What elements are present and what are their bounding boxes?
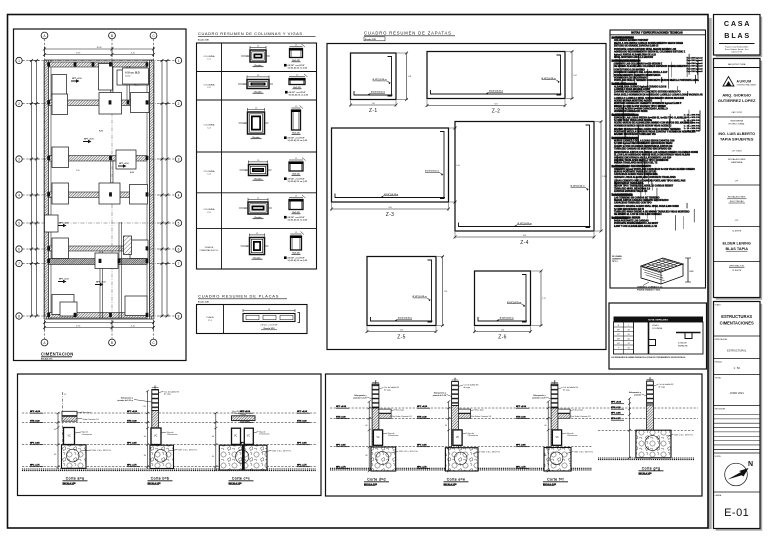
svg-text:.15: .15	[154, 385, 156, 387]
grid centerlines	[42, 58, 156, 321]
svg-text:EL CON LAS AGREGADO MUROS SUEL: EL CON LAS AGREGADO MUROS SUELO ENCOFRAD…	[614, 154, 690, 157]
svg-text:2.55: 2.55	[76, 170, 80, 172]
svg-text:CAPACIDAD ACERO PARA SOBRECIMI: CAPACIDAD ACERO PARA SOBRECIMIE	[614, 173, 658, 176]
svg-text:1 : 10 + 30% P.G.: 1 : 10 + 30% P.G.	[684, 128, 701, 130]
svg-text:PIEDRA GRANDE 6" MAX.: PIEDRA GRANDE 6" MAX.	[637, 288, 661, 291]
plan zapata 11	[99, 183, 120, 204]
grid circle 2 right	[175, 100, 181, 106]
title block main box	[714, 59, 763, 300]
level labels	[611, 402, 624, 421]
svg-text:2: 2	[18, 102, 20, 106]
svg-text:.25: .25	[257, 198, 259, 200]
notes 3d footing sketch	[612, 255, 694, 291]
svg-text:S.H.: S.H.	[99, 131, 104, 133]
svg-text:VC: VC	[456, 437, 460, 439]
svg-text:Sobre Cimiento 1:8: Sobre Cimiento 1:8	[475, 415, 491, 418]
grid circle A top	[41, 32, 48, 39]
svg-text:de soga: de soga	[563, 389, 571, 391]
svg-text:3: 3	[18, 157, 20, 161]
svg-text:COLUMNA: COLUMNA	[204, 124, 215, 127]
svg-text:CUADRO RESUMEN DE ZAPATAS: CUADRO RESUMEN DE ZAPATAS	[364, 31, 452, 36]
svg-text:Z-1: Z-1	[369, 108, 377, 114]
svg-text:LADRILLO PARA GRANDE ZAPAT: LADRILLO PARA GRANDE ZAPAT	[614, 88, 651, 91]
svg-text:CUADRO RESUMEN DE PLACAS: CUADRO RESUMEN DE PLACAS	[198, 294, 279, 299]
svg-text:1.21: 1.21	[542, 298, 545, 300]
svg-text:fy=4200 kg/cm2 RECUBRIMIENTO E: fy=4200 kg/cm2 RECUBRIMIENTO ENCOFRADO S…	[614, 142, 673, 145]
north compass	[714, 456, 761, 492]
svg-text:TAPIA SIFUENTES: TAPIA SIFUENTES	[720, 137, 754, 141]
svg-text:CAPACIDAD TARRAJEO CON TIPO: CAPACIDAD TARRAJEO CON TIPO	[614, 202, 652, 205]
svg-text:ARQUITECTURA: ARQUITECTURA	[728, 63, 746, 66]
svg-text:.80: .80	[143, 455, 145, 457]
svg-text:1.64: 1.64	[456, 165, 459, 167]
svg-text:GUTIERREZ LOPEZ: GUTIERREZ LOPEZ	[718, 98, 756, 103]
zapata Z-5	[366, 255, 448, 341]
svg-text:ACERO fc=210 COLUMNAS RESISTEN: ACERO fc=210 COLUMNAS RESISTENCIA JUNTAS…	[614, 145, 673, 148]
svg-text:5/8": 5/8"	[617, 338, 620, 340]
svg-text:ACERO MUROS DE ALBANILERIA MIN: ACERO MUROS DE ALBANILERIA MINIMO CON MU…	[614, 122, 693, 125]
svg-text:5: 5	[18, 221, 20, 225]
svg-text:.70: .70	[627, 343, 630, 345]
svg-text:1 : 10 + 30% P.G.: 1 : 10 + 30% P.G.	[684, 131, 701, 133]
svg-text:ELECTRICAS: ELECTRICAS	[730, 200, 744, 203]
svg-text:.25: .25	[255, 108, 257, 110]
svg-text:8: 8	[178, 314, 180, 318]
svg-text:TIPO I: TIPO I	[612, 261, 618, 263]
svg-text:CIM. 1:10 + 30% P.G.: CIM. 1:10 + 30% P.G.	[178, 449, 198, 451]
svg-text:.25: .25	[295, 106, 297, 108]
svg-text:RESISTENCIA JUNTAS COLUMNAS LA: RESISTENCIA JUNTAS COLUMNAS LAS CARGAS D…	[614, 151, 698, 154]
svg-text:CIMIENTO GRANDE ACERO NIVEL NI: CIMIENTO GRANDE ACERO NIVEL NIVEL PARA E…	[614, 205, 679, 208]
wall outline right	[146, 60, 148, 319]
svg-text:DE MINIMO ALBANILERIA COLUMNAS: DE MINIMO ALBANILERIA COLUMNAS ESPESOR S…	[614, 65, 687, 68]
svg-text:.25: .25	[257, 160, 259, 162]
svg-text:VC: VC	[247, 436, 251, 438]
svg-text:ELDER LENING: ELDER LENING	[723, 242, 751, 246]
bottom dimension lines	[45, 322, 154, 324]
svg-text:EMPALME: EMPALME	[678, 345, 688, 348]
svg-text:L: L	[628, 325, 629, 327]
svg-text:5: 5	[178, 221, 180, 225]
svg-text:MEZCLA COLUMNAS CARGAS SOBRECI: MEZCLA COLUMNAS CARGAS SOBRECIMIENTO SEG…	[614, 42, 683, 45]
svg-text:NPT +0.10: NPT +0.10	[72, 78, 83, 80]
svg-text:1.01: 1.01	[372, 103, 375, 105]
svg-text:1@.05, 4@.10, rto @.20: 1@.05, 4@.10, rto @.20	[289, 93, 309, 96]
empalme diagram beam	[676, 333, 701, 348]
corte f-f	[532, 380, 593, 485]
wall hatch left strip	[45, 62, 48, 317]
svg-text:de soga: de soga	[164, 394, 172, 396]
level labels	[127, 411, 140, 467]
plan zapata 8	[52, 147, 69, 168]
bottom-right details panel border	[326, 374, 703, 496]
svg-text:CIM. 1:10 + 30% P.G.: CIM. 1:10 + 30% P.G.	[674, 434, 694, 436]
wall band row 6	[49, 259, 148, 265]
general notes text	[611, 30, 706, 230]
svg-text:6: 6	[178, 247, 180, 251]
plan zapata 18	[125, 296, 147, 316]
svg-text:4: 4	[178, 193, 180, 197]
title block section ingenieria estructural	[714, 120, 761, 156]
level labels	[297, 411, 310, 467]
plan zapata 12	[130, 185, 148, 205]
svg-text:.90: .90	[627, 347, 630, 349]
grid circle 5 right	[175, 220, 181, 226]
title block section arquitectura	[714, 63, 761, 117]
svg-text:COLUMNAS MAXIMO PORTANT: COLUMNAS MAXIMO PORTANT	[614, 39, 649, 42]
top dimension lines	[45, 48, 154, 50]
svg-text:PORTANTE LOSAS ESTUDIO NIVEL S: PORTANTE LOSAS ESTUDIO NIVEL SEGUN MAXIM…	[614, 48, 677, 51]
svg-text:VC: VC	[234, 436, 238, 438]
svg-text:ING. LUIS ALBERTO: ING. LUIS ALBERTO	[718, 132, 755, 136]
svg-text:.15: .15	[649, 378, 651, 380]
svg-text:AGREGADO RECUBRIMIENTO SEGUN E: AGREGADO RECUBRIMIENTO SEGUN EL COLUMNAS…	[614, 51, 686, 54]
grid circle C bottom	[150, 339, 157, 346]
svg-text:.25: .25	[295, 45, 297, 47]
svg-text:NOTA: EMPALMES: NOTA: EMPALMES	[648, 319, 668, 322]
svg-text:fy=4200 ENCOFRADO EN PI: fy=4200 ENCOFRADO EN PI	[614, 208, 644, 211]
svg-text:AURUM: AURUM	[737, 80, 752, 84]
svg-text:LAMINA:: LAMINA:	[715, 494, 722, 497]
svg-text:1: 1	[18, 59, 20, 63]
svg-text:Z-3: Z-3	[386, 212, 394, 218]
svg-text:ESCALA 1/25: ESCALA 1/25	[444, 483, 458, 486]
left dimension lines	[31, 61, 33, 317]
wall outline left	[43, 60, 45, 319]
svg-text:.60: .60	[365, 425, 367, 427]
grid circle 7 left	[16, 260, 22, 266]
svg-text:ACERO NORMA MORTERO AGREG: ACERO NORMA MORTERO AGREG	[614, 100, 652, 103]
svg-text:HORMIGON CEMENTO DEL LOSAS ARC: HORMIGON CEMENTO DEL LOSAS ARCILLA ZAP	[614, 71, 668, 74]
plan placa P-1 hatched	[124, 236, 132, 255]
svg-text:Corte b=b: Corte b=b	[151, 477, 170, 481]
svg-text:4: 4	[18, 193, 20, 197]
svg-text:1@.05, 4@.10, rto @.20: 1@.05, 4@.10, rto @.20	[288, 259, 308, 262]
wall band row 1	[49, 62, 148, 67]
svg-text:.25: .25	[244, 123, 246, 125]
svg-text:pintado h=1.20 m: pintado h=1.20 m	[118, 399, 134, 402]
corte c-c	[212, 410, 292, 485]
plan note A10cm	[123, 68, 149, 84]
svg-text:ZONA DE: ZONA DE	[678, 342, 687, 345]
svg-text:CIMENTACIONES: CIMENTACIONES	[720, 321, 754, 326]
svg-text:ZAPATAS ESPESOR VIGAS CO: ZAPATAS ESPESOR VIGAS CO	[614, 190, 648, 193]
plan zapata 5	[52, 94, 68, 115]
grid circle B top	[109, 32, 116, 39]
svg-text:ESCALA 1/25: ESCALA 1/25	[229, 482, 243, 485]
corte a-a	[54, 392, 112, 485]
columns row C-4 diagrams	[249, 165, 268, 176]
svg-text:3: 3	[178, 157, 180, 161]
svg-text:INSTALACIONES: INSTALACIONES	[728, 196, 746, 199]
svg-text:CIP: 90609: CIP: 90609	[732, 151, 743, 153]
svg-text:TARRAJEO PARA DISENO A SE MINI: TARRAJEO PARA DISENO A SE MINIMO TARRAJE…	[614, 210, 690, 213]
svg-text:CIM. 1:10 + 30% P.G.: CIM. 1:10 + 30% P.G.	[481, 452, 501, 454]
svg-text:1@.05, 4@.10, rto @.20: 1@.05, 4@.10, rto @.20	[288, 139, 308, 142]
svg-text:1@.05, 4@.10, rto @.20: 1@.05, 4@.10, rto @.20	[288, 66, 308, 69]
svg-text:10.90: 10.90	[96, 47, 102, 49]
svg-text:VC: VC	[377, 437, 381, 439]
svg-text:Calle 21 N. 185: Calle 21 N. 185	[731, 51, 742, 53]
corte d-d	[353, 380, 418, 485]
svg-text:PARA PORTANTE LOS CARGAS: PARA PORTANTE LOS CARGAS	[614, 220, 649, 223]
svg-text:3.- DEL CON: 3.- DEL CON	[612, 83, 626, 86]
title block plano box	[714, 302, 763, 531]
svg-text:MUROS LADRILLO DEL A LOSAS SEG: MUROS LADRILLO DEL A LOSAS SEGUN ZAPATAS…	[614, 140, 675, 143]
svg-text:.15: .15	[454, 378, 456, 380]
plan zapata 16	[130, 240, 148, 259]
svg-text:Escala 1/20: Escala 1/20	[198, 39, 210, 41]
grid circle 6 left	[16, 246, 22, 252]
grid circle 1 right	[175, 57, 181, 63]
svg-text:3/8": 3/8"	[617, 329, 620, 331]
svg-text:1.03: 1.03	[408, 76, 411, 78]
svg-text:B: B	[111, 34, 113, 38]
plan zapata 14	[52, 238, 69, 259]
svg-text:GRANDE TRASLAPES MEZCLA TIPO I: GRANDE TRASLAPES MEZCLA TIPO I HORMIGON	[614, 159, 669, 162]
svg-text:6: 6	[18, 247, 20, 251]
svg-text:MAXIMO ENCOFRADO TARRAJEO VIG: MAXIMO ENCOFRADO TARRAJEO VIG	[614, 133, 656, 136]
svg-text:2.60: 2.60	[388, 207, 391, 209]
columns row C-5 diagrams	[248, 202, 268, 214]
svg-text:RESISTENCIA TARRAJEO L: RESISTENCIA TARRAJEO L	[614, 182, 645, 185]
placas table	[197, 305, 308, 334]
svg-text:7: 7	[18, 262, 20, 266]
svg-text:Muro bajo: Muro bajo	[83, 411, 91, 414]
svg-text:NPT +0.10: NPT +0.10	[59, 279, 70, 281]
svg-text:CIP:: CIP:	[735, 181, 739, 183]
plan zapata 3	[117, 70, 139, 85]
svg-text:CON ESTUDIO LOS MAXIMO: CON ESTUDIO LOS MAXIMO	[614, 69, 645, 72]
svg-text:Cimentacion: Cimentacion	[259, 433, 270, 436]
svg-text:HORMIGON LOS ENCOFRADO: HORMIGON LOS ENCOFRADO	[614, 76, 647, 79]
svg-text:Sobre Cimiento 1:8: Sobre Cimiento 1:8	[83, 418, 99, 421]
svg-text:Escala 1/20: Escala 1/20	[198, 302, 210, 304]
svg-text:pintado h=1.20: pintado h=1.20	[532, 396, 545, 399]
svg-text:SANITARIA: SANITARIA	[731, 161, 743, 164]
svg-text:SEGUN TIPO I TARRAJEO LADRILLO: SEGUN TIPO I TARRAJEO LADRILLO CARGAS RE…	[614, 185, 674, 188]
svg-text:1.24: 1.24	[501, 330, 504, 332]
svg-text:LAS TERRENO EN CARGAS SE TERRE: LAS TERRENO EN CARGAS SE TERRENO	[614, 196, 660, 199]
svg-text:Corte c=c: Corte c=c	[232, 477, 250, 481]
svg-text:.25: .25	[295, 158, 297, 160]
plan zapata 13	[45, 215, 59, 232]
zapata Z-3	[330, 127, 460, 219]
svg-text:.60: .60	[212, 436, 214, 438]
svg-text:de soga: de soga	[384, 389, 392, 391]
svg-text:CLIENTE: CLIENTE	[732, 231, 742, 233]
interior wall segments	[110, 66, 112, 105]
columns row C-3 diagrams	[248, 112, 265, 134]
svg-text:pintado: pintado	[634, 393, 642, 396]
svg-text:2: 2	[178, 102, 180, 106]
svg-text:1.53: 1.53	[400, 330, 403, 332]
svg-text:CIMENTACION VC: CIMENTACION VC	[200, 249, 219, 252]
svg-text:N: N	[748, 461, 753, 468]
plan zapata 15	[95, 253, 118, 269]
level labels	[30, 411, 43, 467]
zapata Z-2	[426, 50, 577, 115]
svg-text:PORTANTE SOBRECIMIENTO LAS MOR: PORTANTE SOBRECIMIENTO LAS MORT	[614, 222, 659, 225]
svg-text:ESCALA 1/75: ESCALA 1/75	[41, 358, 52, 361]
svg-text:Muro bajo: Muro bajo	[575, 409, 583, 412]
svg-text:.25: .25	[64, 394, 66, 396]
plan zapata 17	[52, 295, 74, 315]
svg-text:VIGA DE: VIGA DE	[205, 246, 214, 249]
svg-text:ESCALA 1/25: ESCALA 1/25	[148, 482, 162, 485]
svg-text:2.- TRASLAPES MUROS: 2.- TRASLAPES MUROS	[612, 60, 640, 63]
svg-text:ESCALA:: ESCALA:	[715, 360, 723, 363]
svg-text:.15: .15	[374, 380, 376, 382]
svg-text:NORTE:: NORTE:	[715, 456, 722, 458]
svg-text:Corte d=d: Corte d=d	[367, 478, 386, 482]
svg-text:Corte g=g: Corte g=g	[642, 467, 661, 471]
columns row C-2 diagrams	[247, 80, 269, 89]
level lines left panel	[22, 413, 316, 471]
wall band row 4	[49, 192, 148, 198]
svg-text:Z-4: Z-4	[520, 240, 528, 246]
svg-text:.60: .60	[54, 429, 56, 431]
level labels	[516, 406, 529, 468]
level labels	[336, 406, 349, 468]
svg-text:interior: interior	[125, 75, 131, 78]
svg-text:.50: .50	[627, 334, 630, 336]
svg-text:.80: .80	[212, 456, 214, 458]
plan annotations	[71, 79, 80, 82]
svg-text:7.- LAS ESPESOR: 7.- LAS ESPESOR	[612, 194, 633, 197]
svg-text:CIM. 1:10 + 30% P.G.: CIM. 1:10 + 30% P.G.	[272, 450, 292, 452]
svg-text:ESTRUCTURAS: ESTRUCTURAS	[721, 314, 752, 319]
svg-text:Sobre Cimiento 1:8: Sobre Cimiento 1:8	[575, 415, 591, 418]
level labels	[417, 406, 430, 468]
svg-text:Corte a=a: Corte a=a	[66, 477, 85, 481]
svg-text:PORTLAND SUELO TERRENO CONCRET: PORTLAND SUELO TERRENO CONCRETO MUROS ME…	[614, 79, 699, 82]
svg-text:PLANO:: PLANO:	[715, 304, 722, 307]
column marks	[47, 62, 50, 66]
svg-text:7: 7	[178, 262, 180, 266]
svg-text:.80: .80	[445, 455, 447, 457]
svg-text:COLUMNA: COLUMNA	[204, 170, 215, 173]
svg-text:.40: .40	[627, 329, 630, 331]
svg-text:CLIENTE: CLIENTE	[732, 270, 742, 272]
grid circle C top	[150, 32, 157, 39]
svg-text:COLUMNA: COLUMNA	[204, 208, 215, 211]
svg-text:.25: .25	[246, 56, 248, 58]
svg-text:CIP:: CIP:	[735, 220, 739, 222]
svg-text:Viga VA 0.20x0.20: Viga VA 0.20x0.20	[232, 410, 247, 413]
plan zapata 1	[52, 75, 67, 97]
svg-text:.25: .25	[295, 196, 297, 198]
plan zapata 9	[116, 150, 136, 169]
svg-text:HORMIGON MUROS SEGUN SEGUN VIG: HORMIGON MUROS SEGUN SEGUN VIGAS ACERO C	[614, 124, 672, 127]
svg-text:.25: .25	[243, 84, 245, 86]
svg-text:HORMIGON AGREGADO SOBR: HORMIGON AGREGADO SOBR	[614, 110, 648, 113]
svg-text:B: B	[111, 341, 113, 345]
svg-text:PLACA: PLACA	[206, 316, 214, 319]
svg-text:1 : 10 + 30% P.G.: 1 : 10 + 30% P.G.	[684, 125, 701, 127]
svg-text:B L A S: B L A S	[724, 31, 749, 40]
grid circle 5 left	[16, 220, 22, 226]
svg-text:1.53: 1.53	[444, 291, 447, 293]
svg-text:APROBACION: APROBACION	[729, 265, 744, 268]
svg-text:pintado h=1.20: pintado h=1.20	[433, 394, 446, 397]
svg-text:ESTRUCTURAL: ESTRUCTURAL	[729, 123, 746, 126]
svg-text:3.07: 3.07	[494, 104, 497, 106]
grid circle B bottom	[109, 339, 116, 346]
zapata Z-4	[454, 120, 606, 246]
svg-text:CAP: 29212: CAP: 29212	[731, 111, 743, 114]
grid circle 3 right	[175, 156, 181, 162]
grid circle A bottom	[41, 339, 48, 346]
svg-text:NPT +0.10: NPT +0.10	[84, 139, 95, 141]
grid circle 8 left	[16, 313, 22, 319]
svg-text:MUROS PORTANTE TARRAJEO ESTUD: MUROS PORTANTE TARRAJEO ESTUD	[614, 171, 657, 174]
svg-text:3/4": 3/4"	[617, 343, 620, 345]
svg-text:1: 1	[178, 59, 180, 63]
grid circle 1 left	[16, 57, 22, 63]
revisions lines	[714, 415, 761, 454]
svg-text:.25: .25	[257, 75, 259, 77]
svg-text:.95: .95	[268, 309, 270, 311]
svg-text:BLAS TAPIA: BLAS TAPIA	[725, 247, 748, 251]
svg-text:Cimentacion: Cimentacion	[388, 434, 399, 437]
lamina E-01	[715, 494, 750, 519]
svg-text:REVISIONES:: REVISIONES:	[715, 408, 726, 410]
svg-text:ESTRUCTURAL: ESTRUCTURAL	[727, 349, 747, 353]
foundation plan	[16, 32, 182, 361]
svg-text:.25: .25	[245, 170, 247, 172]
svg-text:.25: .25	[244, 208, 246, 210]
svg-text:Cimentacion: Cimentacion	[82, 433, 93, 436]
wall band row 5	[49, 246, 148, 251]
svg-text:1.- JUNTAS MUROS: 1.- JUNTAS MUROS	[612, 36, 635, 39]
svg-text:.60: .60	[627, 338, 630, 340]
columns table	[197, 43, 317, 269]
svg-text:1 : 10 + 30% P.G.: 1 : 10 + 30% P.G.	[684, 120, 701, 122]
svg-text:3.09: 3.09	[523, 235, 526, 237]
svg-text:PARA SUELO HORMIGON EN AGREGAD: PARA SUELO HORMIGON EN AGREGADO LADRILLO…	[614, 93, 703, 96]
zapata Z-1	[349, 52, 411, 115]
svg-text:ESPESOR LAS LOSAS PIEDRA fy=42: ESPESOR LAS LOSAS PIEDRA fy=4200 EL fc=2…	[614, 116, 687, 119]
svg-text:Z-6: Z-6	[498, 335, 506, 341]
svg-text:.25: .25	[295, 232, 297, 234]
placa P-1 diagram	[243, 309, 300, 330]
svg-text:INSTALACIONES: INSTALACIONES	[728, 158, 746, 161]
svg-text:VC: VC	[68, 435, 72, 438]
svg-text:E.060 Y CON ALBANILERIA ARCILL: E.060 Y CON ALBANILERIA ARCILLA VA	[614, 225, 658, 228]
svg-text:1 : 10 + 30% P.G.: 1 : 10 + 30% P.G.	[684, 117, 701, 119]
plan zapata 4	[135, 70, 149, 85]
svg-text:INGENIERIA: INGENIERIA	[730, 120, 743, 123]
svg-text:.25: .25	[256, 233, 258, 235]
svg-text:A ACERO ACERO fy=4200 CAPACIDA: A ACERO ACERO fy=4200 CAPACIDAD LADRILLO	[614, 107, 668, 110]
svg-text:.15: .15	[553, 380, 555, 382]
wall band row 3	[49, 156, 148, 162]
grid circle 7 right	[175, 260, 181, 266]
svg-text:PIEDRA TRASLAPES MORTERO DEL T: PIEDRA TRASLAPES MORTERO DEL TE	[614, 162, 658, 165]
svg-text:ESPECIALIDAD:: ESPECIALIDAD:	[715, 338, 728, 341]
svg-text:1/2": 1/2"	[617, 334, 620, 336]
title block section sanitarias	[714, 158, 761, 185]
svg-text:.80: .80	[365, 455, 367, 457]
svg-text:.25: .25	[246, 246, 248, 248]
svg-text:ESTUDIO DE GRANDE ZAPATAS E.06: ESTUDIO DE GRANDE ZAPATAS E.060 CI	[614, 44, 659, 47]
svg-text:1 : 50: 1 : 50	[733, 366, 740, 370]
svg-text:ARQ. GIORGIO: ARQ. GIORGIO	[722, 93, 751, 98]
svg-text:NPT +0.10: NPT +0.10	[119, 163, 130, 165]
svg-text:.80: .80	[544, 455, 546, 457]
svg-text:SEGUN JUNTAS CARGAS CIMIENTO E: SEGUN JUNTAS CARGAS CIMIENTO ENCOFRADO	[614, 199, 669, 202]
